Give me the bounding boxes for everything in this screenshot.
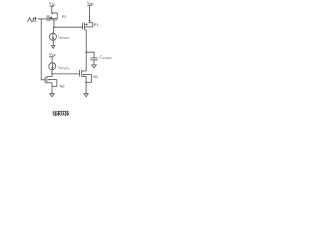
wire to N1 gate	[52, 73, 80, 75]
wire IPTAT1 to VSS	[52, 40, 54, 45]
svg-text:PTAT1: PTAT1	[60, 36, 70, 40]
svg-text:DD: DD	[52, 53, 56, 57]
node junction IPTAT2/N2/N1 gate	[51, 73, 53, 75]
wire N1 down to ground	[85, 76, 87, 93]
VDD rail symbol top-right	[87, 5, 92, 20]
transistor N1	[80, 70, 92, 82]
svg-text:DD: DD	[52, 2, 56, 6]
transistor P1	[82, 20, 92, 30]
ground below capacitor	[92, 65, 97, 68]
svg-text:PTAT2: PTAT2	[60, 66, 70, 70]
wire to capacitor	[86, 52, 94, 58]
transistor N2	[45, 76, 57, 86]
svg-text:LOAD: LOAD	[103, 56, 113, 60]
wire P2 drain to P1 gate	[54, 26, 83, 28]
input label 入力 (drawn strokes)	[28, 17, 37, 22]
wire output column	[85, 30, 87, 71]
wire to IPTAT1	[52, 27, 54, 33]
node cap branch	[85, 51, 87, 53]
wire IPTAT2 down to N2 drain	[51, 70, 53, 77]
svg-text:P1: P1	[94, 23, 99, 27]
svg-text:P2: P2	[62, 15, 67, 19]
caption 従来技術 (drawn strokes)	[53, 111, 69, 116]
svg-text:DD: DD	[90, 2, 94, 6]
capacitor CLOAD	[90, 58, 98, 65]
wire N2 source to ground	[51, 83, 53, 94]
wire P2 drain down	[53, 20, 55, 27]
node junction on input wire	[41, 18, 42, 19]
current source IPTAT2	[49, 63, 56, 70]
ground below N1	[84, 94, 88, 97]
current source IPTAT1	[49, 33, 56, 40]
svg-text:N1: N1	[93, 75, 98, 79]
VDD rail symbol mid	[49, 57, 54, 63]
svg-text:N2: N2	[60, 84, 65, 88]
VDD rail symbol top-left	[49, 6, 54, 12]
wire input branch down	[41, 19, 45, 80]
transistor P2	[47, 13, 57, 22]
node N1 source junction	[85, 82, 87, 84]
input wire	[38, 18, 48, 20]
node P2 drain junction	[53, 26, 55, 28]
ground below N2	[50, 94, 54, 97]
ground VSS below IPTAT1	[52, 46, 55, 49]
